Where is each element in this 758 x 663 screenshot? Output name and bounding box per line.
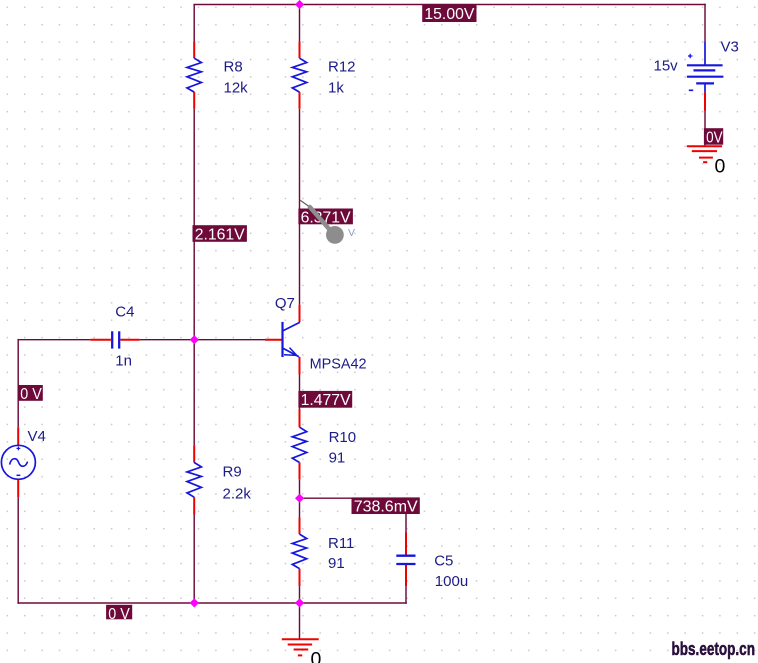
node bottom-left junction [190,598,199,607]
resistor R11 body [292,534,306,569]
svg-text:0 V: 0 V [20,386,42,403]
AC source V4 minus mark [17,474,21,476]
svg-text:2.2k: 2.2k [223,485,252,502]
svg-text:MPSA42: MPSA42 [310,356,367,373]
svg-text:1.477V: 1.477V [301,392,351,409]
transistor Q7 body [283,322,300,357]
voltage probe handle circle [326,226,344,244]
node voltage label 6.371V [298,209,353,227]
wire R11 bottom to bottom rail [299,586,301,603]
node A junction [190,335,199,344]
wire top rail from R8 column to V3 [193,4,705,6]
node voltage label 738.6mV [352,497,420,515]
svg-text:2.161V: 2.161V [195,226,245,243]
svg-text:12k: 12k [224,80,249,97]
AC source V4 sine [10,459,28,467]
wire R8 top [193,5,195,42]
svg-text:C5: C5 [434,553,453,570]
svg-text:1k: 1k [328,80,344,97]
AC source V4 pins [17,427,19,497]
resistor R12 body [292,58,306,92]
wire V4 bottom to bottom rail [17,497,19,604]
svg-text:Q7: Q7 [275,295,295,312]
wire C4 left to V4 corner [18,339,90,341]
svg-text:R10: R10 [329,429,357,446]
capacitor C5 pins [405,533,407,587]
wire node B to R11 top [299,498,301,517]
resistor R9 pins [193,445,195,514]
ground at bottom [282,639,319,655]
svg-text:91: 91 [328,555,345,572]
battery V3 plus mark [688,54,692,58]
node bottom-mid junction [295,598,304,607]
ground at V3 [687,146,722,162]
node voltage label 0 V at bottom rail [106,605,132,623]
wire V3 top lead [704,4,706,42]
svg-text:0V: 0V [706,129,723,146]
node B junction [295,494,304,503]
capacitor C4 plates [112,331,119,348]
voltage probe tip wire [300,200,310,207]
resistor R12 pins [299,42,301,109]
transistor Q7 pins [265,305,300,375]
resistor R10 pins [299,409,301,480]
wire R8 bottom to node A [193,109,195,340]
wire C5 branch vertical top [405,498,407,532]
svg-text:R8: R8 [224,59,243,76]
node voltage label 0V at V3 ground [704,128,723,146]
wire node A to Q7 base [194,339,265,341]
node voltage label 0 V at V4 [18,385,43,403]
svg-text:R12: R12 [328,59,356,76]
wire bottom ground stub [299,603,301,639]
node voltage label 1.477V [298,391,352,409]
wire V4 top lead [17,339,19,427]
AC source V4 circle [1,445,35,479]
node top rail junction [295,0,304,9]
wire bottom rail [17,602,406,604]
wire R12 bottom to Q7 collector [299,109,301,305]
svg-text:V: V [348,227,355,239]
wire R10 bottom to node B [299,480,301,499]
wire R9 bottom to bottom rail [193,515,195,604]
voltage probe stem [310,207,330,230]
wire C5 bottom to bottom rail [405,586,407,604]
svg-text:0 V: 0 V [108,606,130,623]
svg-text:15.00V: 15.00V [424,6,474,23]
wire node B to C5 branch horizontal [300,497,407,499]
svg-text:V4: V4 [28,428,46,445]
wire node A to R9 top [193,340,195,445]
resistor R8 pins [193,42,195,109]
svg-text:1n: 1n [115,353,132,370]
battery V3 plates [687,65,724,83]
wire C4 right to node A [139,339,194,341]
svg-text:738.6mV: 738.6mV [354,499,418,516]
svg-text:0: 0 [311,648,322,663]
node voltage label 15.00V [422,5,476,23]
resistor R10 body [292,427,306,462]
wire R12 top [299,5,301,42]
resistor R9 body [187,463,201,498]
svg-text:R9: R9 [223,464,242,481]
svg-text:100u: 100u [435,573,468,590]
svg-text:R11: R11 [328,535,354,552]
svg-text:bbs.eetop.cn: bbs.eetop.cn [672,639,755,659]
svg-text:C4: C4 [115,304,134,321]
capacitor C4 pins [90,339,139,341]
node voltage label 2.161V [193,225,247,243]
svg-text:15v: 15v [654,58,679,75]
resistor R11 pins [299,518,301,587]
svg-text:0: 0 [715,156,726,178]
svg-text:V3: V3 [721,39,739,56]
wire V3 bottom to ground [704,111,706,146]
wire Q7 emitter to R10 [299,375,301,410]
battery V3 minus mark [689,89,693,91]
AC source V4 plus mark [17,447,21,451]
svg-text:91: 91 [329,449,346,466]
resistor R8 body [187,58,201,92]
capacitor C5 plates [396,556,415,564]
battery V3 leads [704,41,706,110]
